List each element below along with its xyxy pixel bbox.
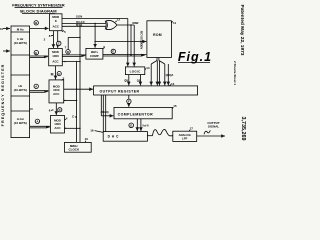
address bus: 999s COMP to ROM bbox=[103, 53, 146, 55]
svg-text:QB: QB bbox=[137, 78, 141, 82]
svg-text:16: 16 bbox=[90, 128, 94, 132]
svg-text:10: 10 bbox=[85, 137, 89, 141]
wire ACC2 to ACC3 bbox=[55, 103, 57, 115]
timing circle C bbox=[57, 72, 61, 76]
register cell labels bbox=[14, 28, 27, 125]
wire MSB' from xor bbox=[117, 24, 135, 26]
svg-text:17: 17 bbox=[190, 126, 194, 130]
label OUTPUT SIGNAL bbox=[207, 121, 220, 129]
OUTPUT REGISTER box bbox=[94, 86, 198, 95]
complementor outputs to DAC bbox=[136, 119, 138, 131]
input wire second bbox=[3, 50, 10, 52]
svg-text:2: 2 bbox=[44, 37, 46, 41]
timing circle E bbox=[34, 50, 38, 54]
svg-text:4: 4 bbox=[66, 116, 68, 120]
svg-text:COMPLEMENTOR: COMPLEMENTOR bbox=[118, 112, 153, 116]
svg-text:F: F bbox=[128, 100, 130, 104]
timing circle C bbox=[57, 41, 61, 45]
svg-text:OUTPUT REGISTER: OUTPUT REGISTER bbox=[100, 89, 140, 93]
title underlines bbox=[15, 7, 63, 9]
clock trunk A bbox=[76, 62, 78, 143]
timing circle A2 bbox=[35, 119, 39, 123]
999's COMP box bbox=[86, 48, 103, 59]
timing circle G bbox=[129, 123, 134, 128]
Fig.1 label bbox=[178, 50, 212, 64]
register divider 3 bbox=[11, 74, 30, 76]
SGN wire to complementor bbox=[100, 95, 102, 116]
bus: ACC1 to 999s COMP bbox=[62, 54, 85, 56]
svg-text:Q̄B: Q̄B bbox=[124, 78, 128, 82]
svg-text:COMP: COMP bbox=[90, 54, 99, 58]
xor gate U12 bbox=[106, 20, 116, 29]
svg-text:Patented May 22, 1973: Patented May 22, 1973 bbox=[239, 5, 245, 56]
svg-text:(10-BITS): (10-BITS) bbox=[14, 41, 27, 45]
wire MSB bbox=[62, 25, 106, 27]
bus: Hz to MOD 1000 ACC 2 bbox=[30, 90, 49, 92]
svg-text:12: 12 bbox=[117, 18, 121, 22]
svg-text:C: C bbox=[72, 114, 75, 118]
wire to ROM at y41.5 bbox=[94, 41, 95, 42]
wire SGN down to LOGIC bbox=[127, 19, 129, 67]
wire output register to complementor bbox=[128, 95, 130, 107]
svg-text:Fig.1: Fig.1 bbox=[178, 50, 212, 64]
wires output register to DAC bbox=[102, 95, 104, 132]
ROM output bus fan bbox=[156, 58, 158, 61]
output sine mark bbox=[204, 130, 210, 134]
8MHz CLOCK box bbox=[65, 142, 92, 152]
svg-text:E: E bbox=[112, 50, 114, 54]
LOGIC outputs to output register bbox=[128, 75, 130, 86]
svg-text:10: 10 bbox=[0, 27, 4, 31]
svg-text:M Hz: M Hz bbox=[17, 28, 24, 32]
clock trunk B bbox=[79, 26, 81, 142]
timing circle C2 bbox=[58, 108, 62, 112]
svg-text:ACC: ACC bbox=[54, 126, 61, 130]
svg-text:D A C: D A C bbox=[108, 135, 120, 139]
bus: k Hz to MOD 1000 ACC 1 bbox=[30, 55, 48, 57]
ROM output wires to output register bbox=[150, 64, 152, 85]
svg-text:6: 6 bbox=[49, 108, 51, 112]
carry line ACC1 right to trunk bbox=[62, 61, 80, 63]
register divider 5 bbox=[11, 110, 30, 112]
svg-text:ACC: ACC bbox=[53, 92, 60, 96]
timing circle D on stub bbox=[67, 37, 69, 49]
svg-text:2 Sheets-Sheet 1: 2 Sheets-Sheet 1 bbox=[233, 61, 237, 85]
svg-text:ACC: ACC bbox=[52, 24, 59, 28]
wire ACC1 to ACC2 bbox=[55, 66, 57, 80]
wire: M Hz to MOD 8 ACC bbox=[30, 27, 49, 29]
title: FREQUENCY SYNTHESIZER BLOCK DIAGRAM bbox=[12, 4, 65, 14]
svg-text:FREQUENCY SYNTHESIZER: FREQUENCY SYNTHESIZER bbox=[12, 4, 65, 8]
carry wires MOD8ACC down to ACC1 bbox=[52, 31, 54, 48]
svg-text:N: N bbox=[30, 107, 32, 111]
svg-text:E: E bbox=[35, 51, 37, 55]
svg-text:ROM: ROM bbox=[153, 33, 162, 37]
svg-text:SGN: SGN bbox=[76, 15, 82, 19]
MOD 8 ACC box bbox=[50, 14, 63, 31]
timing circle B bbox=[34, 21, 38, 25]
register divider 2 bbox=[11, 54, 30, 56]
MOD 1000 ACC 2 box bbox=[49, 80, 64, 103]
svg-text:M: M bbox=[51, 72, 54, 76]
svg-text:MSB: MSB bbox=[76, 23, 83, 27]
register divider 1 bbox=[11, 31, 30, 33]
wire QUAD branch down to 999s COMP bbox=[94, 23, 95, 24]
timing circle A bbox=[34, 84, 38, 88]
svg-text:ADDRESS (10): ADDRESS (10) bbox=[139, 31, 143, 50]
ROM box bbox=[147, 21, 172, 58]
DAC box bbox=[103, 132, 147, 142]
timing circle F bbox=[127, 99, 131, 103]
svg-text:1000: 1000 bbox=[52, 54, 59, 58]
svg-text:LPF: LPF bbox=[182, 137, 188, 141]
svg-text:BLOCK DIAGRAM: BLOCK DIAGRAM bbox=[20, 9, 57, 14]
bus: m Hz to MOD 1000 ACC 3 bbox=[30, 125, 50, 127]
COMPLEMENTOR box bbox=[114, 107, 172, 118]
frequency register box bbox=[11, 26, 30, 138]
LOGIC box bbox=[125, 67, 144, 75]
svg-text:8: 8 bbox=[49, 34, 51, 38]
register divider 4 bbox=[11, 95, 30, 97]
wire into output register bbox=[64, 88, 93, 90]
svg-text:(10 BITS): (10 BITS) bbox=[14, 121, 27, 125]
waveform squiggle bbox=[153, 129, 173, 135]
svg-text:14: 14 bbox=[146, 66, 150, 70]
svg-text:3,735,269: 3,735,269 bbox=[240, 117, 246, 141]
svg-text:8: 8 bbox=[55, 19, 57, 23]
svg-text:5: 5 bbox=[64, 30, 66, 34]
svg-text:FREQUENCY REGISTER: FREQUENCY REGISTER bbox=[1, 64, 5, 127]
Fig.1 underline bbox=[178, 62, 210, 64]
wire MSB' down to address bus bbox=[130, 25, 132, 56]
output wire bbox=[197, 135, 225, 137]
svg-text:(SGN): (SGN) bbox=[101, 110, 109, 114]
svg-text:Q̄BQ̄A: Q̄BQ̄A bbox=[166, 73, 174, 77]
svg-text:LOGIC: LOGIC bbox=[130, 69, 142, 73]
connector ACC3 to trunk bbox=[65, 127, 81, 129]
svg-text:15: 15 bbox=[173, 104, 177, 108]
wire MSB' down to LOGIC bbox=[133, 25, 135, 66]
svg-text:(10-BITS): (10-BITS) bbox=[14, 88, 27, 92]
wire SGN bbox=[62, 18, 128, 20]
svg-text:MSB': MSB' bbox=[132, 21, 139, 25]
svg-text:SIGNAL: SIGNAL bbox=[208, 125, 220, 129]
ANALOG LPF box bbox=[173, 131, 197, 141]
svg-text:CLOCK: CLOCK bbox=[68, 148, 79, 152]
svg-text:ACC: ACC bbox=[52, 60, 59, 64]
label 5 bbox=[62, 30, 64, 31]
MOD 1000 ACC 3 box bbox=[51, 116, 65, 134]
MOD 1000 ACC 1 box bbox=[49, 49, 63, 66]
wire QUAD bbox=[62, 23, 106, 25]
svg-text:5of 6: 5of 6 bbox=[142, 123, 149, 127]
timing circle E bbox=[111, 49, 115, 53]
svg-text:11: 11 bbox=[173, 21, 177, 25]
svg-text:13: 13 bbox=[171, 82, 175, 86]
connector ACC2 to trunk bbox=[64, 100, 77, 102]
DAC output wire and waveform bbox=[147, 135, 152, 137]
input wire top left bbox=[3, 28, 10, 30]
